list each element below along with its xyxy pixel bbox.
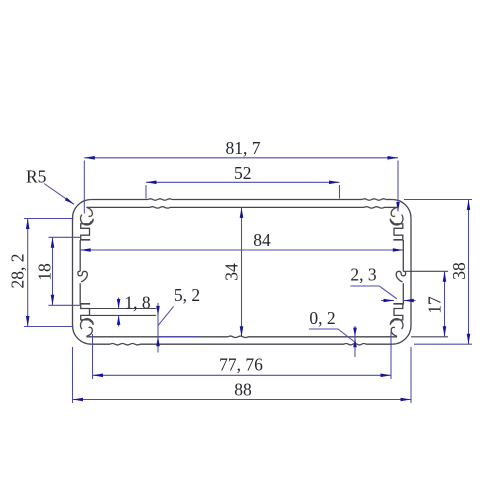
svg-text:81, 7: 81, 7 (226, 138, 261, 158)
bottom-left screw boss corner (81, 319, 94, 329)
dim 38 line (468, 200, 470, 345)
dim 52 line (146, 181, 340, 183)
outer bottom wall (366, 343, 392, 345)
outer left wall (72, 218, 74, 325)
left wall PCB card-guide groove and hook lip (78, 271, 87, 282)
dim 77,76 left extension (92, 334, 94, 379)
bottom-right screw boss corner screw hole swirl (391, 327, 397, 336)
dim 88 line (73, 399, 412, 401)
dim 81,7 left extension (83, 161, 85, 214)
dim 2,3 right stub (403, 300, 415, 302)
dim 77,76 line (93, 374, 392, 376)
top-left screw boss corner serrated comb (80, 222, 90, 240)
outer bottom-left corner arc (73, 326, 92, 345)
dim 2,3 leader (350, 286, 396, 299)
dim 38 bottom extension (414, 343, 472, 345)
bottom-left screw boss corner serrated comb (80, 304, 90, 322)
inner left wall upper segment (79, 240, 81, 271)
svg-text:77, 76: 77, 76 (219, 354, 263, 374)
outer right wall (410, 218, 412, 325)
dim 5,2 vertical line (157, 303, 159, 353)
inner bottom wall line (86, 336, 228, 338)
dim 18 bottom extension (49, 304, 81, 306)
dim 1,8 lower arrow tail (118, 315, 120, 326)
top-left screw boss corner screw hole swirl (86, 207, 92, 216)
svg-text:28, 2: 28, 2 (8, 254, 28, 289)
svg-text:17: 17 (425, 296, 445, 314)
inner left wall lower segment (79, 283, 81, 304)
dim 17 top extension from hook (406, 270, 449, 272)
dim 2,3 left stub (381, 300, 394, 302)
inner right wall lower segment (402, 283, 404, 304)
dim 77,76 right extension (390, 332, 392, 379)
label R5 leader with arrowhead at corner radius (44, 184, 74, 205)
top-right screw boss corner screw hole swirl (391, 207, 397, 216)
outer top-left corner arc (73, 200, 92, 219)
dim 1,8 upper extension from comb slot (90, 308, 156, 310)
dim 1,8 upper arrow tail (118, 298, 120, 309)
dim 18 line (52, 237, 54, 305)
right wall PCB card-guide groove and hook lip (396, 271, 405, 282)
dim 88 right extension (410, 347, 412, 403)
outer top-right corner arc (392, 200, 411, 219)
dim 5,2 leader diagonal (158, 306, 174, 325)
dim 28,2 bottom extension (24, 326, 74, 328)
dim 84 line (80, 249, 403, 251)
dim 28,2 line (27, 219, 29, 327)
bottom-right screw boss corner serrated comb (393, 304, 403, 322)
svg-text:2, 3: 2, 3 (350, 264, 377, 284)
dim 0,2 vertical line (354, 326, 356, 357)
svg-text:18: 18 (35, 263, 55, 281)
svg-text:34: 34 (222, 263, 242, 281)
svg-text:84: 84 (253, 230, 271, 250)
top-left screw boss corner (81, 215, 94, 225)
svg-text:0, 2: 0, 2 (309, 308, 335, 328)
dim 34 line (241, 207, 243, 336)
dim 28,2 top extension (24, 218, 74, 220)
dim 52 left extension (145, 185, 147, 199)
bottom-right screw boss corner (390, 319, 403, 329)
bottom-left screw boss corner screw hole swirl (86, 327, 92, 336)
svg-text:5, 2: 5, 2 (174, 285, 200, 305)
dim 1,8 lower extension from comb slot (90, 314, 156, 316)
dim 81,7 line (84, 157, 398, 159)
dim 88 left extension (72, 347, 74, 403)
dim 81,7 right extension into boss slot (397, 161, 399, 212)
svg-text:1, 8: 1, 8 (124, 292, 151, 312)
dim 0,2 leader (309, 329, 354, 342)
svg-text:88: 88 (234, 379, 252, 399)
svg-text:R5: R5 (26, 167, 47, 187)
dim 5,2 floor extension stub (158, 336, 199, 338)
top-right screw boss corner serrated comb (393, 222, 403, 240)
outer bottom-right corner arc (392, 326, 411, 345)
dim 38 top extension (404, 199, 472, 201)
top-right screw boss corner (390, 215, 403, 225)
dim 17 bottom extension from inner floor (411, 336, 448, 338)
dim 18 top extension (49, 236, 81, 238)
inner right wall upper segment (402, 240, 404, 271)
svg-text:52: 52 (234, 163, 252, 183)
inner top wall line (86, 206, 150, 208)
dim 52 right extension (339, 185, 341, 199)
svg-text:38: 38 (449, 262, 469, 280)
outer top wall left segment (91, 199, 148, 201)
dim 17 line (444, 271, 446, 337)
